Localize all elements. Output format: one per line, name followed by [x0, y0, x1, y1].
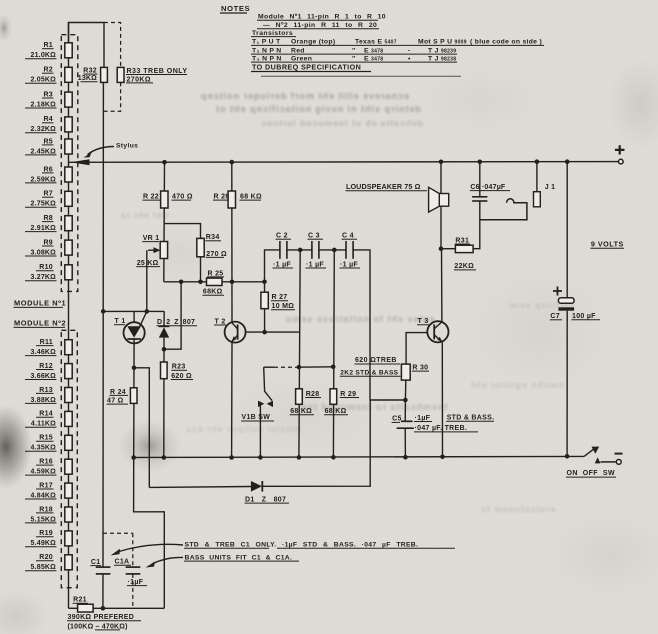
- svg-text:R33 TREB ONLY: R33 TREB ONLY: [127, 68, 188, 75]
- node bus T2: [229, 455, 234, 460]
- svg-text:620 ΩTREB: 620 ΩTREB: [355, 357, 397, 364]
- resistor R27 10M: [264, 282, 266, 332]
- svg-text:·1 µF: ·1 µF: [340, 261, 358, 268]
- wire D1 to C4/R30/C5 node riser: [262, 400, 370, 486]
- svg-text:25 KΩ: 25 KΩ: [137, 260, 159, 267]
- svg-text:2.45KΩ: 2.45KΩ: [31, 148, 57, 155]
- svg-text:R34: R34: [206, 234, 220, 241]
- diode D2 Z807: [163, 311, 165, 326]
- svg-text:·1µF: ·1µF: [415, 415, 431, 422]
- svg-text:LOUDSPEAKER 75 Ω: LOUDSPEAKER 75 Ω: [346, 182, 421, 191]
- wire T3 collector up to rail (through speaker): [441, 249, 443, 322]
- resistor R7: [25, 191, 72, 208]
- svg-text:MODULE Nº1: MODULE Nº1: [14, 299, 66, 308]
- annotation STD & TREB C1 ONLY: [111, 542, 456, 556]
- svg-text:R13: R13: [39, 387, 53, 394]
- resistor R15: [25, 435, 72, 452]
- svg-text:— Nº2 11-pin R 11 to: — Nº2 11-pin R 11 to R 20: [263, 22, 377, 29]
- svg-text:2K2 STD & BASS: 2K2 STD & BASS: [340, 370, 398, 377]
- svg-text:tnemhcatta ro tnemucod rep: tnemhcatta ro tnemucod rep: [300, 402, 448, 412]
- svg-text:5.49KΩ: 5.49KΩ: [31, 540, 57, 547]
- svg-text:ON OFF SW: ON OFF SW: [567, 470, 615, 477]
- svg-text:VR 1: VR 1: [143, 235, 160, 242]
- node C1 on bottom wire: [101, 606, 106, 611]
- resistor R14: [25, 411, 72, 428]
- svg-text:10 MΩ: 10 MΩ: [272, 303, 295, 310]
- resistor R5: [25, 138, 72, 155]
- svg-text:R 24: R 24: [110, 389, 126, 396]
- svg-text:3.08KΩ: 3.08KΩ: [31, 249, 57, 256]
- node T1 gate / VR1 wiper: [145, 309, 150, 314]
- wire VIB SW to bus: [259, 405, 261, 458]
- bleed-through ghost text from verso: [120, 91, 574, 514]
- svg-text:V1B SW: V1B SW: [242, 414, 271, 421]
- svg-text:·047 µF. TREB.: ·047 µF. TREB.: [415, 425, 468, 432]
- svg-text:4.35KΩ: 4.35KΩ: [31, 445, 57, 452]
- label 9 VOLTS: [590, 239, 624, 248]
- node rail-C6: [478, 160, 483, 165]
- svg-text:R19: R19: [39, 530, 53, 537]
- node C2-C3 (to R28): [298, 248, 303, 253]
- svg-text:4.11KΩ: 4.11KΩ: [31, 421, 56, 428]
- loudspeaker 75 ohm: [440, 162, 442, 194]
- capacitor C3 .1uF: [306, 233, 327, 269]
- svg-text:(100KΩ – 470KΩ): (100KΩ – 470KΩ): [68, 623, 128, 630]
- svg-text:3.27KΩ: 3.27KΩ: [31, 274, 57, 281]
- svg-text:·1 µF: ·1 µF: [306, 261, 324, 268]
- node R27/C2 on R25 row: [262, 280, 267, 285]
- switch ON OFF SW: [566, 447, 623, 478]
- + battery terminal: [615, 145, 625, 164]
- wire R32 bottom down to C1 (long column): [102, 82, 104, 567]
- svg-text:R31: R31: [455, 237, 469, 244]
- note line: T3 NPN Green E3478 TJ 98238: [251, 55, 457, 62]
- svg-text:R3: R3: [43, 91, 53, 98]
- svg-text:T 3: T 3: [418, 318, 429, 325]
- resistor R25 horizontal: [202, 270, 224, 295]
- resistor R6: [25, 166, 72, 183]
- node R26/T2 column on R25 row: [230, 280, 235, 285]
- svg-text:erutcafunam fo: erutcafunam fo: [480, 504, 555, 514]
- svg-text:R28: R28: [306, 391, 320, 398]
- node R29 column on vib row: [331, 365, 336, 370]
- svg-text:R4: R4: [43, 116, 53, 123]
- wire D2 anode to R25 row riser: [164, 282, 181, 349]
- svg-text:5.85KΩ: 5.85KΩ: [31, 564, 57, 571]
- svg-text:2.05KΩ: 2.05KΩ: [31, 77, 57, 84]
- resistor R28 68K: [299, 250, 300, 458]
- resistor R31 22K: [441, 248, 455, 250]
- svg-text:68 KΩ: 68 KΩ: [240, 194, 262, 201]
- notes title NOTES: [220, 4, 250, 13]
- svg-text:R 29: R 29: [340, 391, 356, 398]
- wire D1 row from T1 cathode: [149, 486, 251, 489]
- svg-text:C1A: C1A: [115, 559, 130, 566]
- svg-text:R8: R8: [43, 215, 53, 222]
- resistor R17: [25, 482, 72, 499]
- wire T1 cathode down: [133, 339, 135, 368]
- node D2 anode junction: [162, 347, 167, 352]
- svg-text:4.59KΩ: 4.59KΩ: [31, 469, 57, 476]
- ladder wire module 2 (R11-R20 chain): [68, 291, 70, 608]
- svg-text:4.84KΩ: 4.84KΩ: [31, 492, 57, 499]
- potentiometer VR1 25K: [136, 235, 167, 267]
- resistor R24 47: [133, 368, 135, 458]
- wire R22/VR1 column to R34: [164, 224, 201, 239]
- svg-text:22KΩ: 22KΩ: [454, 263, 474, 270]
- svg-text:R21: R21: [73, 597, 87, 604]
- svg-text:R32: R32: [83, 68, 97, 75]
- svg-text:100 µF: 100 µF: [572, 313, 596, 320]
- stylus wedge: [71, 159, 90, 165]
- svg-text:STD & TREB C1 ONLY. ·1µF: STD & TREB C1 ONLY. ·1µF STD & BASS. ·04…: [185, 542, 419, 549]
- svg-text:STD & BASS.: STD & BASS.: [447, 415, 495, 422]
- annotation BASS UNITS FIT C1 & C1A: [146, 554, 300, 567]
- svg-text:2.75KΩ: 2.75KΩ: [31, 201, 57, 208]
- svg-text:dehcatta eb ot tnemucod lortno: dehcatta eb ot tnemucod lortnoc: [260, 118, 423, 128]
- transistor T3: [417, 318, 449, 342]
- svg-text:D 2 Z 807: D 2 Z 807: [157, 319, 195, 326]
- wire T1 anode drop: [133, 311, 135, 322]
- module 2 dashed enclosure: [61, 330, 77, 587]
- resistor R33: [117, 67, 187, 83]
- resistor R8: [25, 215, 72, 232]
- notes bottom rule: [261, 75, 461, 77]
- wire rail to R26 to T2 collector: [231, 162, 233, 322]
- svg-text:C 3: C 3: [308, 233, 320, 240]
- svg-text:Stylus: Stylus: [116, 143, 138, 150]
- transistor T2: [214, 318, 246, 342]
- svg-text:21.0KΩ: 21.0KΩ: [31, 52, 57, 59]
- node rail-R26: [230, 160, 235, 165]
- svg-text:D1 Z 807: D1 Z 807: [245, 496, 286, 503]
- svg-text:R18: R18: [39, 506, 53, 513]
- resistor R34: [197, 234, 227, 258]
- wire bottom ground wire: [69, 607, 78, 609]
- svg-text:R 26: R 26: [214, 194, 230, 201]
- wire T2 base row: [246, 331, 300, 333]
- svg-text:nwohs sgnitar eht: nwohs sgnitar eht: [470, 380, 564, 390]
- resistor R29 68K: [332, 250, 335, 458]
- wire C1 column junction row to T1/D2 (y=311.4): [103, 310, 164, 312]
- capacitor C1: [90, 559, 110, 574]
- wire ladder top to R32/R33: [69, 23, 105, 68]
- node rail-speaker: [439, 160, 444, 165]
- resistor R1: [25, 42, 72, 59]
- svg-text:C7: C7: [550, 313, 560, 320]
- svg-text:R2: R2: [43, 67, 53, 74]
- svg-text:C5: C5: [392, 416, 402, 423]
- resistor R22: [143, 191, 193, 208]
- resistor R19: [25, 530, 72, 547]
- svg-text:BASS UNITS FIT C1 & C1A.: BASS UNITS FIT C1 & C1A.: [185, 554, 293, 561]
- svg-text:470 Ω: 470 Ω: [172, 194, 193, 201]
- switch VIB SW: [241, 367, 274, 421]
- svg-text:C1: C1: [91, 559, 101, 566]
- resistor R13: [25, 387, 72, 404]
- node R28 column on vib row: [297, 365, 302, 370]
- svg-text:5.15KΩ: 5.15KΩ: [31, 516, 57, 523]
- resistor R3: [25, 91, 72, 108]
- svg-text:detaler noitpec eht dna: detaler noitpec eht dna: [185, 424, 301, 434]
- svg-text:TO DUBREQ SPECIFICATION: TO DUBREQ SPECIFICATION: [252, 63, 361, 72]
- svg-text:390KΩ PREFERED: 390KΩ PREFERED: [68, 614, 135, 621]
- ladder wire module 1 (R1-R10 chain): [68, 23, 70, 292]
- svg-text:MODULE Nº2: MODULE Nº2: [14, 319, 66, 328]
- note line: Transistors: [251, 30, 296, 37]
- svg-text:2.32KΩ: 2.32KΩ: [31, 126, 57, 133]
- module 1 dashed enclosure: [61, 35, 78, 292]
- svg-text:eulav eht fo noitatress semu: eulav eht fo noitatress semu: [285, 314, 435, 324]
- resistor R30: [340, 357, 429, 380]
- capacitor C6 .047uF: [479, 162, 481, 197]
- svg-text:detnirp siht ni nevig noitacif: detnirp siht ni nevig noitacificep eht o…: [215, 104, 421, 114]
- resistor R23 620: [163, 349, 165, 457]
- transistor T1 (PUT): [114, 311, 147, 343]
- svg-text:3.46KΩ: 3.46KΩ: [31, 349, 57, 356]
- svg-text:NOTES: NOTES: [221, 4, 250, 13]
- diode D1 Z807: [245, 481, 290, 503]
- svg-text:C 4: C 4: [342, 233, 354, 240]
- svg-text:R14: R14: [39, 411, 53, 418]
- node C3-C4 (to R29): [332, 248, 337, 253]
- svg-text:Module Nº1 11-pin R 1 to: Module Nº1 11-pin R 1 to R 10: [258, 14, 386, 21]
- resistor R9: [25, 239, 72, 256]
- resistor R26: [213, 191, 262, 208]
- svg-text:R 27: R 27: [272, 294, 288, 301]
- resistor R2: [25, 67, 72, 84]
- label Stylus with arrow: [84, 143, 139, 158]
- label .1uF under C1A: [127, 579, 147, 586]
- node rail-R22: [162, 160, 167, 165]
- wire R30 bottom to C5 node: [404, 380, 406, 400]
- svg-text:R9: R9: [43, 239, 53, 246]
- wire R34 bottom to R25 row: [200, 257, 202, 282]
- node bus R23: [162, 455, 167, 460]
- node rail-C7: [565, 159, 570, 164]
- svg-text:R20: R20: [39, 554, 53, 561]
- jack switch contact (hook): [480, 199, 527, 220]
- note line: Module No.1 11-pin R1 to R10: [257, 14, 386, 21]
- svg-text:68 KΩ: 68 KΩ: [325, 408, 347, 415]
- resistor R21 390K: [73, 597, 94, 612]
- svg-text:R12: R12: [39, 363, 53, 370]
- svg-text:R7: R7: [43, 191, 53, 198]
- svg-text:J 1: J 1: [545, 184, 556, 191]
- resistor R12: [25, 363, 72, 380]
- svg-text:9 VOLTS: 9 VOLTS: [591, 239, 624, 248]
- resistor R20: [25, 554, 72, 571]
- svg-text:13KΩ: 13KΩ: [78, 75, 97, 82]
- svg-text:620 Ω: 620 Ω: [171, 373, 192, 380]
- svg-text:47 Ω: 47 Ω: [107, 398, 124, 405]
- scan stains and smudges: [0, 405, 32, 489]
- node T1 cathode junction: [132, 366, 137, 371]
- node C1 column: [101, 309, 106, 314]
- wire C4 right down to R30/C5 node: [353, 250, 405, 400]
- svg-text:R1: R1: [43, 42, 53, 49]
- svg-text:Transistors: Transistors: [252, 30, 293, 37]
- capacitor C5: [404, 400, 406, 421]
- svg-text:R10: R10: [39, 264, 53, 271]
- svg-text:C6 ·047µF: C6 ·047µF: [470, 184, 506, 191]
- dashed wire R33 bottom to C1 column: [104, 82, 121, 111]
- node R27 bottom on base row: [262, 330, 267, 335]
- label 390K preferred: [67, 614, 141, 630]
- wire T3 base to R30: [406, 333, 427, 365]
- svg-text:R 22: R 22: [143, 194, 159, 201]
- note line: TO DUBREQ SPECIFICATION: [251, 63, 371, 72]
- wire rail to R22 to VR1: [163, 162, 166, 282]
- svg-text:3.66KΩ: 3.66KΩ: [31, 373, 57, 380]
- svg-text:·1 µF: ·1 µF: [273, 261, 291, 268]
- node bus VIB SW: [258, 455, 263, 460]
- capacitor C7 100uF electrolytic: [566, 162, 568, 298]
- note line: T2 NPN Red E3478 TJ 98239: [251, 47, 457, 54]
- svg-text:ecnareve eltit eht morf deriuq: ecnareve eltit eht morf deriuqer noitcep: [200, 91, 409, 101]
- svg-text:R 30: R 30: [412, 364, 428, 371]
- wire C3 to C4: [319, 249, 346, 251]
- node bus R28: [297, 455, 302, 460]
- resistor R10: [25, 264, 72, 281]
- svg-text:T 2: T 2: [215, 318, 226, 325]
- svg-text:270KΩ: 270KΩ: [127, 76, 151, 83]
- node R30/C5/C4/D1 junction: [403, 398, 408, 403]
- note line: No.2 11-pin R11 to R20: [257, 22, 379, 29]
- dashed wire R32 top to R33 top: [104, 23, 121, 68]
- svg-text:R23: R23: [172, 364, 186, 371]
- resistor R18: [25, 506, 72, 523]
- svg-text:68 KΩ: 68 KΩ: [290, 408, 312, 415]
- note line: T1 PUT Orange (top) Texas E5407 Mot SPU (blue code on side): [251, 39, 544, 46]
- wire bus left end zigzag down to bottom wire: [134, 458, 165, 609]
- svg-text:tfel eht ta: tfel eht ta: [120, 210, 169, 220]
- wire T2 emitter to bottom bus: [231, 343, 233, 458]
- wire VIB SW row to R28/R29: [264, 366, 274, 368]
- svg-text:R17: R17: [39, 482, 53, 489]
- wire C2 left to R27 top corner: [265, 250, 280, 282]
- wire R25 row (VR1 bottom to R27 top): [164, 281, 207, 283]
- wire top rail stylus line to + terminal: [69, 161, 621, 164]
- svg-text:R 25: R 25: [208, 270, 224, 277]
- capacitor C1A dashed branch: [103, 532, 133, 534]
- node bus T3: [440, 455, 445, 460]
- node D2 column on R25 row: [179, 280, 184, 285]
- node bus C7: [565, 454, 570, 459]
- node R34 on R25 row: [198, 280, 203, 285]
- wire T3 emitter to bus: [441, 342, 443, 457]
- svg-text:R6: R6: [43, 166, 53, 173]
- label MODULE No 1: [14, 299, 67, 308]
- wire bottom bus: [134, 456, 584, 457]
- node bus T1/R24: [131, 455, 136, 460]
- node bus R29: [331, 455, 336, 460]
- wire T1 cathode to D1 drop wire: [134, 368, 149, 488]
- wire VR1 wiper to T1 gate node: [146, 250, 148, 311]
- node speaker/R31/T3: [439, 246, 444, 251]
- svg-text:C 2: C 2: [276, 233, 288, 240]
- svg-text:R15: R15: [39, 435, 53, 442]
- resistor R11: [25, 339, 72, 356]
- svg-text:R5: R5: [43, 138, 53, 145]
- svg-text:2.91KΩ: 2.91KΩ: [31, 225, 57, 232]
- wire C2 to C3: [287, 249, 312, 251]
- capacitor C2 .1uF: [273, 233, 294, 269]
- resistor R4: [25, 116, 72, 133]
- svg-text:·1µF: ·1µF: [128, 579, 144, 586]
- resistor R16: [25, 459, 72, 476]
- svg-text:2.59KΩ: 2.59KΩ: [31, 176, 57, 183]
- label MODULE No 2: [14, 319, 67, 328]
- svg-text:3.88KΩ: 3.88KΩ: [31, 397, 57, 404]
- node rail-J1: [535, 159, 540, 164]
- svg-text:R11: R11: [40, 339, 53, 346]
- resistor R32: [78, 67, 108, 82]
- svg-text:T 1: T 1: [115, 318, 126, 325]
- svg-text:2.18KΩ: 2.18KΩ: [31, 101, 57, 108]
- svg-text:R16: R16: [39, 459, 53, 466]
- capacitor C4 .1uF: [340, 233, 361, 269]
- svg-text:270 Ω: 270 Ω: [206, 251, 227, 258]
- node bus C5: [403, 455, 408, 460]
- svg-text:68KΩ: 68KΩ: [203, 289, 223, 296]
- jack J1: [536, 162, 538, 192]
